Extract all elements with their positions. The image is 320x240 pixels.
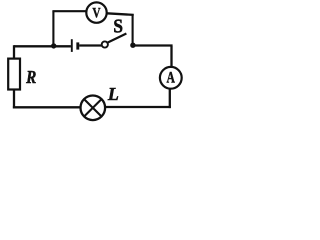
battery long plate bbox=[71, 39, 73, 52]
wire: left side lower vertical bbox=[13, 90, 15, 109]
wire: voltmeter branch top right horizontal bbox=[107, 13, 134, 15]
svg-text:R: R bbox=[25, 67, 36, 87]
svg-text:A: A bbox=[167, 70, 175, 87]
svg-text:V: V bbox=[92, 5, 100, 21]
wire: right side lower vertical bbox=[169, 89, 171, 108]
wire: voltmeter branch left vertical bbox=[52, 11, 54, 46]
wire: voltmeter branch top left horizontal bbox=[52, 10, 86, 12]
svg-text:L: L bbox=[107, 84, 119, 104]
lamp L cross diagonal 2 bbox=[84, 99, 101, 116]
wire: left side upper vertical bbox=[13, 45, 15, 58]
switch S pivot circle bbox=[102, 41, 108, 47]
wire: battery to switch bbox=[79, 44, 101, 46]
node junction dot right (switch contact) bbox=[130, 43, 135, 48]
wire: voltmeter branch right vertical bbox=[132, 14, 134, 45]
wire: lamp to bottom-right corner bbox=[105, 106, 171, 108]
switch S lever arm bbox=[108, 34, 127, 43]
battery short thick plate bbox=[76, 42, 79, 49]
wire: bottom side, left corner to lamp bbox=[13, 106, 81, 108]
wire: right side upper vertical bbox=[170, 46, 172, 67]
svg-text:S: S bbox=[113, 16, 123, 37]
lamp L cross diagonal 1 bbox=[84, 99, 101, 116]
resistor R box bbox=[8, 59, 20, 90]
wire: switch contact to top-right corner bbox=[133, 44, 173, 46]
lamp L circle bbox=[81, 96, 106, 121]
ammeter A circle bbox=[160, 67, 182, 89]
node junction dot left (voltmeter tap) bbox=[51, 43, 56, 48]
wire: top side, left corner to battery bbox=[14, 45, 71, 47]
voltmeter V circle bbox=[86, 2, 106, 22]
